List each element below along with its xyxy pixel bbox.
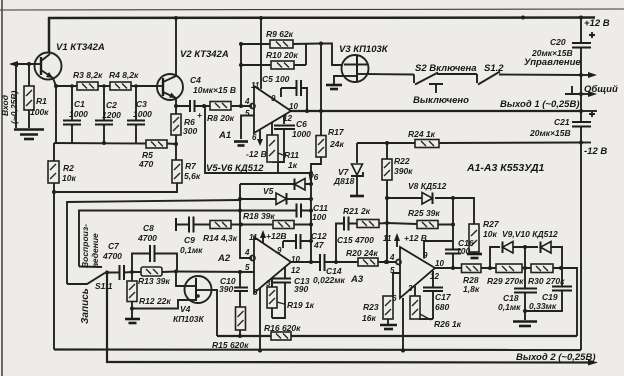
svg-text:C5 100: C5 100 <box>262 74 290 84</box>
svg-text:9: 9 <box>277 246 282 255</box>
svg-text:11: 11 <box>383 234 392 243</box>
wire R2 top lead <box>53 143 55 161</box>
op-amp A3 <box>396 247 435 298</box>
capacitor C21 <box>572 111 595 127</box>
wire R5 left lead <box>140 143 146 145</box>
svg-text:А3: А3 <box>350 274 364 285</box>
node V5 right <box>309 197 313 201</box>
svg-text:R2: R2 <box>63 163 74 173</box>
svg-text:R22: R22 <box>394 156 410 166</box>
svg-text:V3 КП103К: V3 КП103К <box>339 44 389 55</box>
svg-text:24к: 24к <box>329 139 344 149</box>
resistor R2 <box>48 161 59 183</box>
svg-text:R10 20к: R10 20к <box>266 50 298 60</box>
svg-text:S2 Включена: S2 Включена <box>415 63 477 74</box>
svg-text:V1 КТ342А: V1 КТ342А <box>56 42 105 53</box>
wire V1 emitter to R3 bus <box>53 78 56 143</box>
svg-text:S1.1: S1.1 <box>95 281 113 291</box>
wire R9 row <box>241 43 321 46</box>
node fb-R9 <box>239 42 243 46</box>
wire V4 gate <box>176 272 186 287</box>
wire R10 row <box>241 64 306 66</box>
svg-text:1000: 1000 <box>133 109 152 119</box>
svg-text:20мк×15В: 20мк×15В <box>531 48 573 58</box>
svg-text:16к: 16к <box>362 313 376 323</box>
node common <box>579 92 583 96</box>
wire lower mid rail y336 <box>217 335 577 337</box>
diode V8 <box>422 193 433 205</box>
svg-text:680: 680 <box>435 302 449 312</box>
ground R23 <box>380 324 397 327</box>
resistor R21 <box>357 220 379 228</box>
diode V9 <box>503 242 514 254</box>
svg-text:R25 39к: R25 39к <box>408 208 440 218</box>
wire V5 row <box>240 198 311 200</box>
wire R3-R4 bus to V2 base <box>56 85 158 87</box>
capacitor C17 <box>423 288 443 292</box>
svg-text:R17: R17 <box>328 127 345 137</box>
wire input shield <box>15 64 17 128</box>
svg-text:R20 24к: R20 24к <box>346 248 378 258</box>
node V6 right <box>309 182 313 186</box>
capacitor C5 <box>297 80 302 96</box>
transistor V2 <box>157 74 183 100</box>
svg-text:V6: V6 <box>308 172 319 182</box>
svg-text:V9,V10 КД512: V9,V10 КД512 <box>502 229 558 239</box>
wire C15 R21 loop <box>336 223 387 262</box>
resistor R26 <box>410 296 431 320</box>
node A2out-fb <box>309 260 313 264</box>
svg-text:4: 4 <box>244 248 250 257</box>
wire R12 leads <box>131 272 133 309</box>
wire common tick <box>565 86 581 94</box>
capacitor C4 <box>190 100 195 112</box>
resistor R28 <box>462 264 482 273</box>
wire A2 pin9 C12 loop <box>283 241 311 248</box>
svg-text:R3 8,2к: R3 8,2к <box>73 70 103 80</box>
wire A1 pin9 stub <box>280 88 282 97</box>
wire R9R10 right join <box>305 44 307 65</box>
wire R26 bottom lead <box>417 318 419 320</box>
wire R1 leads <box>28 64 30 128</box>
wire R6 leads <box>175 106 177 144</box>
node C4-R8 <box>202 104 206 108</box>
capacitor C14 <box>320 254 325 271</box>
node V9V10 mid <box>523 245 527 249</box>
wire R2 bottom lead <box>53 183 55 192</box>
capacitor C15 <box>344 217 349 231</box>
wire V1 base <box>29 63 36 65</box>
resistor R3 <box>77 82 98 90</box>
svg-text:Запись: Запись <box>80 288 91 324</box>
svg-text:0,1мк: 0,1мк <box>180 245 203 255</box>
node R30 right <box>559 266 563 270</box>
wire R27 ground <box>473 252 475 253</box>
svg-text:0,1мк: 0,1мк <box>498 302 521 312</box>
resistor R1 <box>24 86 34 110</box>
diode V10 <box>541 242 552 254</box>
svg-text:Выход 2 (~0,25В): Выход 2 (~0,25В) <box>516 352 595 363</box>
resistor R15 <box>236 307 246 330</box>
wire A1 output (output 1 line) <box>291 110 581 112</box>
svg-text:3: 3 <box>408 284 413 293</box>
svg-text:1000: 1000 <box>69 109 88 119</box>
capacitor C7 <box>120 265 125 280</box>
svg-text:5: 5 <box>245 109 250 118</box>
wire A1 pin12 C6 chain <box>272 116 284 163</box>
wire C3 leads <box>135 86 137 143</box>
wire A2 output row <box>291 261 396 263</box>
svg-text:+: + <box>197 110 202 120</box>
wire playback bus A <box>67 200 240 284</box>
svg-text:C17: C17 <box>435 292 452 302</box>
svg-text:100к: 100к <box>30 107 49 117</box>
wire C6R11 drop to net <box>277 162 279 173</box>
svg-text:R15 620к: R15 620к <box>212 340 249 350</box>
wire -12V stub <box>581 142 591 144</box>
resistor R23 <box>383 296 393 319</box>
svg-text:100: 100 <box>312 212 326 222</box>
node R29-R30 <box>523 266 527 270</box>
wire AGC line R9 to V3 gate and R17 <box>321 44 343 66</box>
svg-text:390: 390 <box>294 284 308 294</box>
node R22-A3in <box>385 260 389 264</box>
svg-text:12: 12 <box>283 114 292 123</box>
svg-text:0,33мк: 0,33мк <box>529 301 557 311</box>
resistor R9 <box>270 40 293 48</box>
svg-text:9: 9 <box>271 94 276 103</box>
svg-text:C15 4700: C15 4700 <box>337 235 374 245</box>
svg-text:0,022мк: 0,022мк <box>313 275 346 285</box>
node em-R3 <box>54 84 58 88</box>
svg-text:R21 2к: R21 2к <box>343 206 371 216</box>
wire A3 pin9 C16 link <box>424 241 453 259</box>
wire fb2 left vertical <box>240 184 252 258</box>
wire V4 source loop <box>132 300 186 309</box>
wire output2 rail y362 <box>107 273 590 363</box>
wire R5 right lead <box>167 143 176 146</box>
ground V3 <box>326 84 342 87</box>
wire out1 stub right <box>581 110 597 112</box>
node V8 out <box>451 196 455 200</box>
node C11 right <box>309 209 313 213</box>
capacitor C10 <box>234 288 248 292</box>
wire R7 leads <box>175 144 177 160</box>
resistor R20 <box>358 258 378 266</box>
ground A1 pin5 <box>234 140 248 143</box>
wire R23 ground <box>387 319 389 324</box>
svg-text:КП103К: КП103К <box>173 314 205 324</box>
svg-text:V4: V4 <box>180 304 191 314</box>
wire R24 row <box>357 142 581 145</box>
wire C18 ground <box>524 311 526 320</box>
op-amp A1 <box>250 86 291 133</box>
svg-text:Выход 1 (~0,25В): Выход 1 (~0,25В) <box>500 99 579 110</box>
resistor R17 <box>316 136 326 158</box>
svg-text:C3: C3 <box>136 99 147 109</box>
wire R12 ground stub <box>131 309 133 319</box>
wire R17 vertical <box>311 44 321 185</box>
svg-text:Воспроиз-: Воспроиз- <box>80 224 90 268</box>
wire R25 row <box>387 223 453 225</box>
node R18 right <box>309 223 313 227</box>
ground R27 <box>467 253 482 256</box>
wire C7 row <box>107 271 132 274</box>
resistor R8 <box>210 102 231 111</box>
capacitor C3 <box>127 121 145 125</box>
node R12 bottom <box>130 307 134 311</box>
wire C10 R15 chain <box>239 272 241 336</box>
svg-text:20мк×15В: 20мк×15В <box>529 128 571 138</box>
svg-text:+12 В: +12 В <box>584 18 610 29</box>
node -12V <box>579 141 583 145</box>
svg-text:Выключено: Выключено <box>413 95 469 106</box>
ground C18 <box>513 320 537 323</box>
page left edge line <box>1 0 3 376</box>
wire C11 row <box>240 210 311 212</box>
node out-C16 <box>451 266 455 270</box>
svg-text:C1: C1 <box>74 99 85 109</box>
node C11 left <box>238 209 242 213</box>
wire A3 pin5 R23 <box>393 273 401 296</box>
node R8-fb <box>239 104 243 108</box>
node R28-R29 <box>488 266 492 270</box>
node R22-V8 <box>385 196 389 200</box>
resistor R16 <box>271 332 291 340</box>
capacitor C13 <box>273 279 291 283</box>
node rail-S12 <box>521 16 525 20</box>
node C2 top <box>102 84 106 88</box>
svg-text:-12 В: -12 В <box>584 146 607 157</box>
transistor V4 FET <box>185 276 212 303</box>
wire R13 out to A2 pin5 <box>176 271 254 274</box>
resistor R29 <box>496 264 522 273</box>
wire A1 minus12 arrow pin6 <box>259 130 261 142</box>
node R13 right <box>174 270 178 274</box>
node C14-C15 <box>334 260 338 264</box>
wire R30 to right riser <box>561 268 577 336</box>
node C18 bottom <box>523 309 527 313</box>
resistor R18 <box>273 221 294 229</box>
svg-text:6: 6 <box>253 288 258 297</box>
node agc <box>319 42 323 46</box>
capacitor C12 <box>296 234 301 249</box>
svg-text:R29 270к: R29 270к <box>487 276 524 286</box>
node R15 bottom rail <box>238 334 242 338</box>
node V2em-C4 <box>174 104 178 108</box>
node R2 bottom <box>52 190 56 194</box>
node V5 left <box>238 197 242 201</box>
svg-text:R11: R11 <box>284 150 299 160</box>
resistor R25 <box>417 221 438 229</box>
diode V6 <box>295 179 306 191</box>
svg-text:10: 10 <box>289 102 298 111</box>
node capbus <box>102 141 106 145</box>
wire S1.1 blade <box>67 273 105 284</box>
node A3pin6 rail <box>401 349 405 353</box>
svg-text:1000: 1000 <box>292 129 311 139</box>
svg-text:47: 47 <box>313 240 325 250</box>
svg-text:V8 КД512: V8 КД512 <box>408 181 447 191</box>
node R5-R6 <box>174 142 178 146</box>
op-amp A2 <box>250 237 291 293</box>
svg-text:4700: 4700 <box>102 251 122 261</box>
svg-text:V5-V6 КД512: V5-V6 КД512 <box>206 163 264 174</box>
svg-text:390к: 390к <box>394 166 413 176</box>
svg-text:11: 11 <box>251 81 260 90</box>
svg-text:R12 22к: R12 22к <box>139 296 171 306</box>
ground R12 <box>125 318 140 321</box>
wire C5 row <box>281 88 307 111</box>
wire V2 emitter <box>175 98 177 106</box>
svg-text:10мк×15 В: 10мк×15 В <box>193 85 236 95</box>
resistor R24 <box>415 140 439 148</box>
svg-text:А1: А1 <box>218 130 231 141</box>
node rail-bus <box>579 16 583 20</box>
wire A3 pin6 drop <box>402 298 404 351</box>
wire control stub arrow <box>581 74 590 76</box>
page top edge line <box>0 9 624 10</box>
wire A3 output row <box>435 267 577 269</box>
node R22-R21 <box>385 221 389 225</box>
capacitor C9 <box>189 217 194 233</box>
capacitor C8 <box>150 245 155 262</box>
svg-text:5: 5 <box>245 263 250 272</box>
node pin5-C10 <box>238 270 242 274</box>
wire A2 pin12 C13 chain <box>272 267 285 318</box>
wire V6 row <box>240 183 311 185</box>
wire R13 row <box>132 271 176 274</box>
svg-text:10: 10 <box>435 259 444 268</box>
svg-text:(~0,25В): (~0,25В) <box>9 91 19 124</box>
svg-text:C2: C2 <box>106 100 117 110</box>
svg-text:ведение: ведение <box>90 233 100 268</box>
node control-bus <box>579 73 583 77</box>
ground V7 <box>350 195 364 198</box>
capacitor C1 <box>63 121 81 125</box>
svg-text:R27: R27 <box>483 219 500 229</box>
wire record contact stub <box>79 266 102 269</box>
svg-text:6: 6 <box>392 294 397 303</box>
svg-text:R18 39к: R18 39к <box>243 211 275 221</box>
svg-text:3: 3 <box>266 279 271 288</box>
ground input <box>14 128 44 131</box>
svg-text:C7: C7 <box>108 241 120 251</box>
wire R22 vertical <box>386 143 388 262</box>
resistor R5 <box>146 140 167 148</box>
wire record bus B <box>79 211 240 267</box>
svg-text:R9 62к: R9 62к <box>266 29 294 39</box>
svg-text:А1-А3 К553УД1: А1-А3 К553УД1 <box>466 162 545 174</box>
capacitor C6 <box>274 126 295 130</box>
wire C18 chain <box>524 268 526 311</box>
wire right supply bus <box>580 18 582 351</box>
switch S2 off contact <box>429 84 443 93</box>
svg-text:R23: R23 <box>363 302 379 312</box>
svg-text:5,6к: 5,6к <box>184 171 201 181</box>
wire minus12 rail y350 <box>54 348 581 351</box>
svg-text:470: 470 <box>138 159 153 169</box>
svg-text:10к: 10к <box>62 173 76 183</box>
wire fb2 right vertical <box>310 173 312 262</box>
svg-text:10: 10 <box>291 255 300 264</box>
capacitor C19 <box>552 287 572 291</box>
wire A2 pin3 lead <box>271 278 273 287</box>
wire A3 pin11 arrow <box>396 237 398 247</box>
wire V3 source to ground <box>334 76 343 84</box>
svg-text:V5: V5 <box>263 186 274 196</box>
svg-text:R4 8,2к: R4 8,2к <box>109 70 139 80</box>
wire V2 collector <box>175 18 177 76</box>
wire V8 row <box>387 198 474 224</box>
node C12 right <box>309 239 313 243</box>
resistor R19 <box>267 287 284 308</box>
svg-text:4: 4 <box>244 97 250 106</box>
wire V3 drain to S2 <box>368 73 414 76</box>
svg-text:+12 В: +12 В <box>404 233 427 243</box>
node S11 common <box>105 271 109 275</box>
resistor R13 <box>141 267 162 276</box>
wire A1 inverting node vertical <box>240 44 242 106</box>
capacitor C18 <box>514 289 537 293</box>
diode V5 <box>276 193 287 205</box>
svg-text:C8: C8 <box>143 223 154 233</box>
node out1-bus <box>579 109 583 113</box>
node C16 top <box>451 223 455 227</box>
svg-text:5: 5 <box>390 266 395 275</box>
svg-text:Д818: Д818 <box>333 176 355 186</box>
transistor V3 FET <box>342 55 369 82</box>
node R24-R22 <box>385 141 389 145</box>
resistor R14 <box>210 221 231 229</box>
svg-text:4700: 4700 <box>137 233 157 243</box>
svg-text:C21: C21 <box>554 117 570 127</box>
wire V9V10 mid drop <box>524 247 526 268</box>
node C7-R13 <box>130 270 134 274</box>
svg-text:6: 6 <box>252 133 257 142</box>
switch S1.2 <box>477 72 500 85</box>
wire C19 chain <box>525 268 562 311</box>
wire net top row y173 <box>205 106 311 173</box>
svg-text:R24 1к: R24 1к <box>408 129 436 139</box>
wire diode loop verticals <box>490 247 562 268</box>
svg-text:R8 20к: R8 20к <box>207 113 235 123</box>
wire A1 pin5 ground stub <box>241 116 254 140</box>
capacitor C16 <box>445 250 461 254</box>
resistor R7 <box>172 160 182 183</box>
wire A1 pin11 supply <box>260 18 262 89</box>
wire common stub arrow <box>581 93 590 95</box>
wire C2 leads <box>103 86 105 143</box>
diode V7 zener <box>351 164 363 176</box>
svg-text:12: 12 <box>291 266 300 275</box>
resistor R10 <box>271 61 294 69</box>
svg-text:R19 1к: R19 1к <box>287 300 315 310</box>
node C3 top <box>134 84 138 88</box>
svg-text:S1.2: S1.2 <box>484 63 504 74</box>
svg-text:+12В: +12В <box>266 231 287 241</box>
wire cap bottom bus to R5 <box>54 142 146 145</box>
wire C9 input tick <box>175 218 177 231</box>
svg-text:R13 39к: R13 39к <box>138 276 170 286</box>
svg-text:А2: А2 <box>217 253 231 264</box>
svg-text:Управление: Управление <box>524 57 581 68</box>
svg-text:C9: C9 <box>184 235 195 245</box>
resistor R27 <box>469 224 479 252</box>
wire C1 leads <box>71 86 73 143</box>
wire V8 C16 vertical <box>452 198 454 268</box>
svg-text:R1: R1 <box>36 96 47 106</box>
